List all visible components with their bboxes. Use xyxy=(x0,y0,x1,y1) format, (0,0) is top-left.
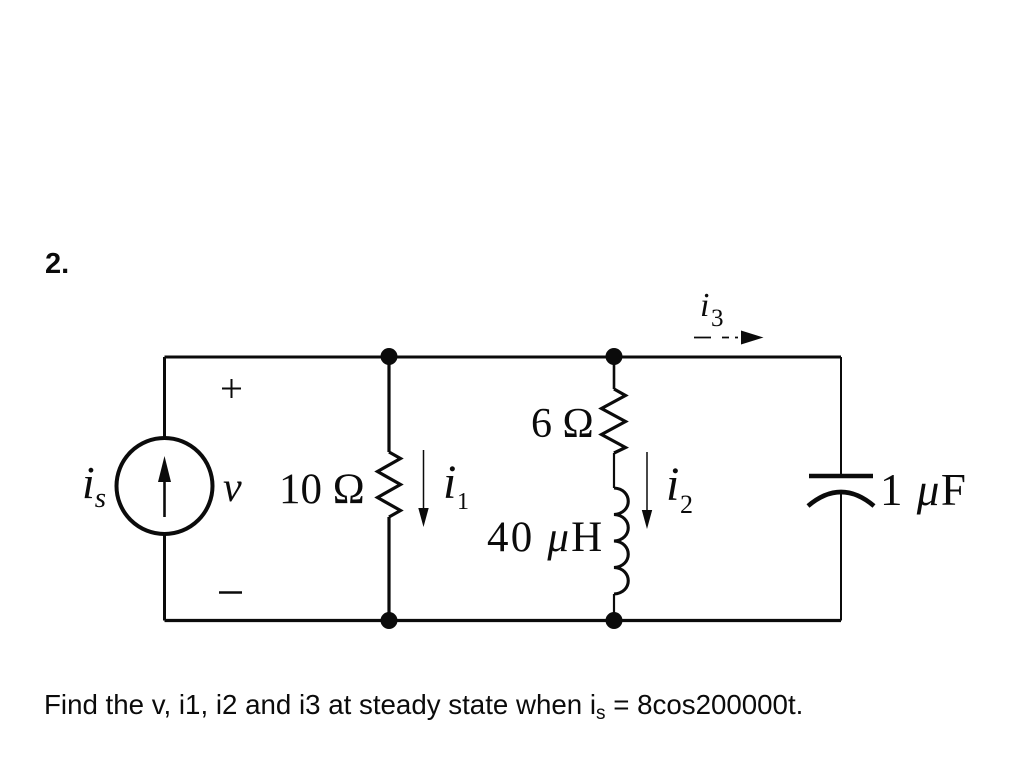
svg-text:2: 2 xyxy=(680,490,693,519)
capacitor C1 bottom curved plate xyxy=(808,492,874,506)
svg-text:v: v xyxy=(223,465,242,511)
svg-text:3: 3 xyxy=(711,305,724,332)
resistor R2 6 ohm xyxy=(613,357,616,389)
wire right branch lower xyxy=(840,494,842,621)
current arrow i1 xyxy=(423,450,425,512)
svg-text:i: i xyxy=(700,287,709,324)
svg-text:i: i xyxy=(666,458,679,511)
minus sign xyxy=(219,591,242,593)
wire left branch lower xyxy=(163,534,166,621)
wire bottom: from source bottom to capacitor bottom xyxy=(165,619,842,622)
current source is circle xyxy=(117,438,213,534)
svg-text:6 Ω: 6 Ω xyxy=(531,401,594,447)
wire between 6 ohm and inductor xyxy=(613,453,615,488)
plus sign xyxy=(222,379,241,398)
svg-text:2.: 2. xyxy=(45,248,69,280)
capacitor C1 top plate xyxy=(809,474,873,479)
current arrow i2 xyxy=(646,452,648,514)
resistor R1 10 ohm branch xyxy=(387,357,390,452)
inductor L1 40 uH xyxy=(614,488,628,594)
node B top-middle junction xyxy=(606,348,623,365)
wire below inductor xyxy=(613,594,615,621)
node A top-left junction xyxy=(381,348,398,365)
wire right branch upper xyxy=(840,357,842,476)
svg-text:is: is xyxy=(82,457,106,514)
svg-text:1: 1 xyxy=(457,489,469,515)
svg-text:Find the v, i1, i2 and i3 at s: Find the v, i1, i2 and i3 at steady stat… xyxy=(44,689,803,724)
wire left branch upper xyxy=(163,357,166,438)
svg-text:1 μF: 1 μF xyxy=(880,465,967,515)
node D bottom-middle junction xyxy=(606,612,623,629)
current source arrow xyxy=(163,479,166,517)
svg-text:40 μH: 40 μH xyxy=(487,514,604,561)
current arrow i3 dashed xyxy=(694,337,738,339)
svg-text:i: i xyxy=(443,456,456,509)
node C bottom-left junction xyxy=(381,612,398,629)
svg-text:10 Ω: 10 Ω xyxy=(279,466,365,513)
wire top: from source top to capacitor top xyxy=(165,356,842,359)
